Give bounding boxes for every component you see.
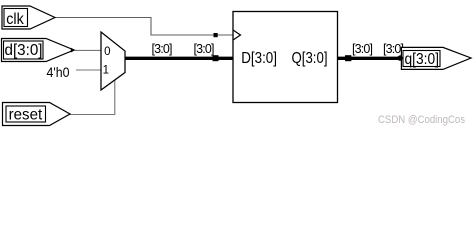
svg-text:[3:0]: [3:0]: [152, 42, 173, 56]
svg-text:Q[3:0]: Q[3:0]: [292, 50, 328, 67]
svg-text:4'h0: 4'h0: [47, 64, 70, 80]
svg-text:q[3:0]: q[3:0]: [404, 51, 439, 68]
svg-text:0: 0: [104, 46, 110, 58]
svg-text:[3:0]: [3:0]: [352, 42, 373, 56]
svg-text:D[3:0]: D[3:0]: [241, 50, 277, 67]
svg-text:[3:0]: [3:0]: [194, 42, 215, 56]
svg-text:reset: reset: [9, 106, 43, 123]
svg-text:clk: clk: [6, 11, 24, 28]
svg-text:d[3:0]: d[3:0]: [5, 42, 43, 59]
svg-text:1: 1: [103, 64, 109, 76]
svg-text:CSDN @CodingCos: CSDN @CodingCos: [378, 114, 465, 126]
